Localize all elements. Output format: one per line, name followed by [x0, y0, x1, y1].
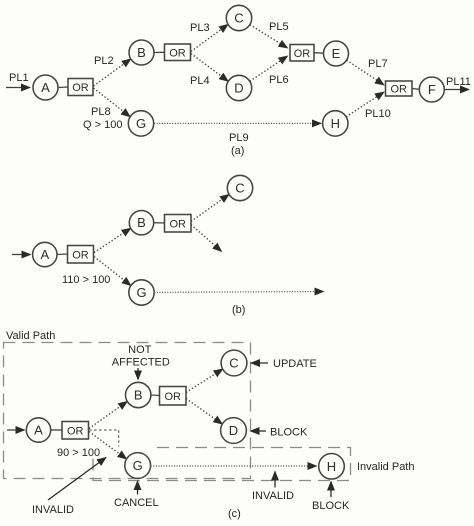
svg-text:(c): (c) [228, 508, 241, 520]
svg-text:A: A [34, 423, 43, 438]
svg-text:PL4: PL4 [190, 75, 210, 87]
svg-text:110 > 100: 110 > 100 [62, 274, 110, 286]
svg-text:BLOCK: BLOCK [312, 500, 350, 512]
svg-text:PL11: PL11 [446, 76, 471, 88]
svg-text:NOT: NOT [128, 344, 152, 356]
svg-text:A: A [40, 247, 49, 262]
wire G long output arrow [154, 291, 323, 294]
or-gate ORc2 [160, 387, 187, 406]
wire input arrow to A [12, 254, 31, 256]
node D [226, 75, 251, 100]
wire INVALID arrow to G-H line [274, 472, 276, 488]
svg-text:OR: OR [164, 391, 181, 403]
node B [129, 211, 153, 235]
or-gate ORb1 [68, 246, 94, 264]
svg-text:D: D [229, 423, 238, 438]
svg-text:OR: OR [390, 84, 407, 96]
svg-text:PL2: PL2 [94, 55, 114, 67]
svg-text:PL7: PL7 [368, 58, 388, 70]
or-gate ORb2 [165, 215, 192, 233]
wire ORb2 to C [191, 194, 229, 221]
wire B to OR2 [154, 51, 165, 53]
node C [221, 350, 247, 376]
svg-text:90 > 100: 90 > 100 [57, 447, 100, 459]
svg-text:OR: OR [72, 82, 89, 94]
wire G to H (PL9) [154, 122, 321, 124]
node B [129, 40, 154, 65]
svg-text:H: H [327, 459, 336, 474]
svg-text:G: G [133, 458, 143, 473]
node G [128, 111, 153, 136]
wire OR1 to G (PL8) [94, 88, 131, 117]
wire ORb1 to G [94, 257, 131, 286]
wire BLOCK arrow to D [251, 430, 267, 432]
valid path dashed box [4, 343, 251, 479]
invalid path dashed box [93, 448, 351, 481]
svg-text:PL6: PL6 [269, 74, 289, 86]
svg-text:PL1: PL1 [9, 72, 29, 84]
wire G to H [151, 465, 317, 467]
wire D to OR3 (PL6) [250, 56, 288, 81]
svg-text:UPDATE: UPDATE [273, 358, 317, 370]
node F [419, 77, 444, 102]
svg-text:OR: OR [67, 426, 84, 438]
wire NOT AFFECTED arrow to B [137, 368, 139, 380]
svg-text:D: D [234, 81, 243, 96]
wire F output arrow (PL11) [444, 89, 469, 91]
svg-text:OR: OR [169, 48, 186, 60]
node E [324, 41, 349, 66]
wire ORc2 to D [186, 399, 222, 425]
svg-text:A: A [41, 80, 50, 95]
wire B to ORb2 [154, 222, 165, 224]
wire OR3 to E [314, 52, 324, 55]
wire INVALID long arrow [48, 458, 106, 501]
label NOT AFFECTED [112, 344, 170, 369]
node A [33, 75, 58, 100]
svg-text:Invalid Path: Invalid Path [357, 461, 414, 473]
svg-text:PL5: PL5 [269, 21, 289, 33]
svg-text:PL10: PL10 [365, 108, 391, 120]
node H [319, 454, 345, 480]
svg-text:OR: OR [72, 250, 89, 262]
svg-text:BLOCK: BLOCK [270, 427, 308, 439]
wire BLOCK arrow to H [330, 482, 332, 498]
node G [129, 280, 154, 305]
or-gate OR1 [68, 79, 93, 96]
wire OR4 to F [412, 88, 419, 91]
wire UPDATE arrow to C [251, 362, 268, 364]
wire ORc1 to B [89, 401, 127, 428]
wire OR2 to C (PL3) [191, 24, 228, 51]
svg-text:PL9: PL9 [229, 132, 249, 144]
wire ORc2 to C [186, 369, 223, 392]
node C [226, 5, 251, 30]
svg-text:F: F [428, 82, 436, 97]
svg-text:B: B [134, 388, 143, 403]
svg-text:Q > 100: Q > 100 [83, 119, 122, 131]
node G [125, 453, 151, 479]
or-gate OR3 [290, 45, 314, 62]
wire A to OR1 [58, 86, 68, 89]
wire OR2 to D (PL4) [191, 54, 228, 82]
svg-text:E: E [332, 46, 341, 61]
wire H to OR4 (PL10) [346, 92, 384, 117]
node A [26, 418, 50, 442]
wire C to OR3 (PL5) [250, 25, 288, 48]
svg-text:B: B [137, 215, 146, 230]
wire E to OR4 (PL7) [347, 60, 384, 85]
svg-text:G: G [136, 285, 146, 300]
node D [221, 418, 247, 444]
node B [126, 382, 151, 407]
svg-text:C: C [229, 356, 238, 371]
wire ORc1 elbow into invalid box [89, 430, 119, 447]
svg-text:OR: OR [294, 48, 311, 60]
svg-text:AFFECTED: AFFECTED [112, 357, 170, 369]
wire input arrow to A [7, 429, 25, 431]
wire A to OR [51, 429, 62, 431]
svg-text:B: B [137, 45, 146, 60]
svg-text:(a): (a) [231, 145, 244, 157]
node H [323, 111, 348, 136]
wire ORc1 to G [89, 432, 127, 460]
or-gate ORc1 [62, 422, 89, 440]
or-gate OR4 [386, 81, 413, 96]
wire A to OR [57, 253, 68, 256]
svg-text:H: H [331, 116, 340, 131]
wire OR1 to B (PL2) [94, 59, 131, 86]
svg-text:C: C [234, 11, 243, 26]
wire ORb1 to B [94, 228, 131, 252]
svg-text:INVALID: INVALID [32, 504, 74, 516]
svg-text:G: G [136, 116, 146, 131]
or-gate OR2 [165, 44, 191, 61]
svg-text:CANCEL: CANCEL [114, 497, 159, 509]
svg-text:PL3: PL3 [190, 22, 210, 34]
node A [33, 242, 57, 266]
svg-text:(b): (b) [232, 304, 245, 316]
wire B to ORc2 [151, 394, 160, 397]
svg-text:C: C [235, 181, 244, 196]
svg-text:Valid Path: Valid Path [6, 330, 55, 342]
wire ORb2 dangling arrow [191, 225, 222, 252]
svg-text:INVALID: INVALID [252, 490, 294, 502]
wire CANCEL arrow to G [137, 481, 139, 495]
wire input arrow to A [6, 87, 30, 89]
svg-text:PL8: PL8 [91, 106, 111, 118]
node C [227, 175, 252, 200]
svg-text:OR: OR [169, 219, 186, 231]
